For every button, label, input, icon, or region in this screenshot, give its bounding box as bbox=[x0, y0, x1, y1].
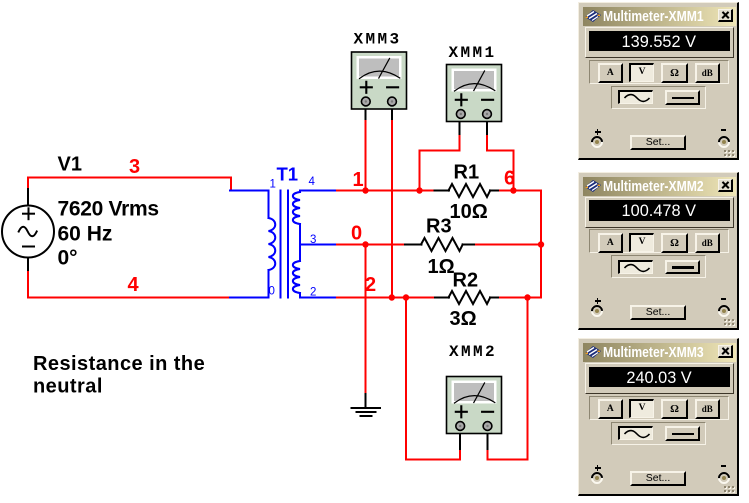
T1 secondary bottom winding bbox=[299, 245, 301, 262]
wire: net 2 row (red) bbox=[337, 297, 436, 299]
svg-text:XMM1: XMM1 bbox=[449, 44, 497, 62]
svg-text:2: 2 bbox=[310, 287, 316, 299]
svg-text:0: 0 bbox=[269, 286, 275, 298]
junction net1 / XMM1+ bbox=[416, 187, 422, 193]
wire: top red wire from V1 to T1 primary (net 3) bbox=[28, 178, 231, 191]
T1 secondary top winding bbox=[299, 191, 301, 193]
wire: XMM2 plus black stub bbox=[459, 428, 461, 449]
svg-text:R2: R2 bbox=[453, 270, 479, 292]
wire: XMM2 minus black stub bbox=[487, 428, 489, 449]
svg-text:4: 4 bbox=[309, 176, 316, 188]
wire: net 0 row (red) bbox=[337, 244, 406, 246]
multimeter panel XMM2 bbox=[578, 172, 739, 330]
svg-text:7620 Vrms: 7620 Vrms bbox=[58, 198, 159, 221]
multimeter icon XMM2 bbox=[447, 377, 502, 434]
svg-text:1: 1 bbox=[270, 179, 276, 191]
svg-text:3: 3 bbox=[310, 234, 316, 246]
wire: XMM1 plus probe loop to net 1 bbox=[420, 133, 460, 191]
svg-text:3: 3 bbox=[129, 156, 140, 178]
T1 primary winding bbox=[268, 191, 270, 219]
ground bbox=[352, 394, 381, 416]
svg-text:Resistance in the: Resistance in the bbox=[33, 353, 205, 375]
junction node 0 / ground bbox=[362, 241, 368, 247]
wire: XMM3 minus probe down to net 2 bbox=[391, 118, 393, 298]
wire: right vertical rail bbox=[540, 191, 542, 298]
svg-text:neutral: neutral bbox=[33, 376, 103, 398]
wire: red stub above V1 bbox=[27, 178, 29, 191]
junction node 6 bbox=[510, 187, 516, 193]
voltage source V1 bbox=[2, 206, 54, 258]
junction net0 / rail bbox=[538, 241, 544, 247]
junction net2 / XMM2+ bbox=[403, 294, 409, 300]
resistor R2 bbox=[435, 291, 501, 304]
svg-text:1: 1 bbox=[353, 169, 364, 191]
junction node 1 / XMM3+ bbox=[362, 187, 368, 193]
wire: black lead V1 bottom bbox=[27, 257, 29, 273]
wire: R3 right to rail bbox=[476, 244, 541, 246]
multimeter icon XMM1 bbox=[447, 65, 502, 122]
svg-text:T1: T1 bbox=[277, 164, 299, 185]
svg-text:0: 0 bbox=[351, 223, 362, 245]
svg-text:4: 4 bbox=[128, 274, 140, 296]
svg-text:10Ω: 10Ω bbox=[450, 201, 488, 223]
wire: net 1 row (red) bbox=[337, 190, 435, 192]
svg-text:XMM3: XMM3 bbox=[354, 31, 402, 49]
wire: blue secondary top stub (net 1) bbox=[300, 190, 338, 192]
svg-text:R3: R3 bbox=[426, 216, 452, 238]
svg-text:XMM2: XMM2 bbox=[449, 343, 497, 361]
wire: XMM1 minus black stub bbox=[486, 118, 488, 134]
wire: R2 right to rail corner bbox=[500, 297, 541, 299]
junction net2 / XMM3- bbox=[389, 294, 395, 300]
transformer T1 bbox=[230, 191, 338, 298]
wire: XMM1 minus probe loop to node 6 bbox=[487, 133, 513, 191]
wire: blue top-left stub into T1 bbox=[230, 190, 269, 192]
wire: XMM1 plus black stub bbox=[458, 118, 460, 134]
wire: neutral down to ground (red) bbox=[365, 245, 367, 396]
wire: XMM3 minus black stub bbox=[391, 105, 393, 119]
svg-text:3Ω: 3Ω bbox=[450, 308, 477, 330]
svg-text:V1: V1 bbox=[58, 154, 82, 176]
wire: blue secondary bottom stub (net 2) bbox=[300, 297, 338, 299]
wire: blue bottom-left stub into T1 bbox=[230, 297, 269, 299]
T1 core lines bbox=[280, 191, 282, 298]
wire: bottom red wire from V1 to T1 (net 4) bbox=[28, 272, 231, 298]
svg-text:1Ω: 1Ω bbox=[428, 256, 455, 278]
wire: XMM3 plus black stub bbox=[365, 105, 367, 119]
multimeter panel XMM3 bbox=[578, 338, 739, 496]
svg-text:0°: 0° bbox=[58, 247, 78, 270]
svg-text:2: 2 bbox=[365, 274, 376, 296]
multimeter panel XMM1 bbox=[578, 2, 739, 160]
resistor R3 bbox=[405, 238, 477, 251]
junction net2 / XMM2- bbox=[524, 294, 530, 300]
svg-text:60 Hz: 60 Hz bbox=[58, 223, 113, 246]
wire: black lead V1 top bbox=[27, 189, 29, 206]
wire: R1 right to node 6 and rail bbox=[500, 190, 541, 192]
wire: XMM2 minus probe loop to net 2 right bbox=[488, 298, 528, 460]
svg-text:R1: R1 bbox=[454, 162, 480, 184]
multimeter icon XMM3 bbox=[352, 52, 407, 109]
wire: XMM3 plus probe down to net 1 bbox=[365, 118, 367, 191]
resistor R1 bbox=[435, 184, 502, 197]
wire: blue center-tap stub (net 0) bbox=[300, 244, 338, 246]
wire: XMM2 plus probe loop to net 2 bbox=[406, 298, 460, 460]
